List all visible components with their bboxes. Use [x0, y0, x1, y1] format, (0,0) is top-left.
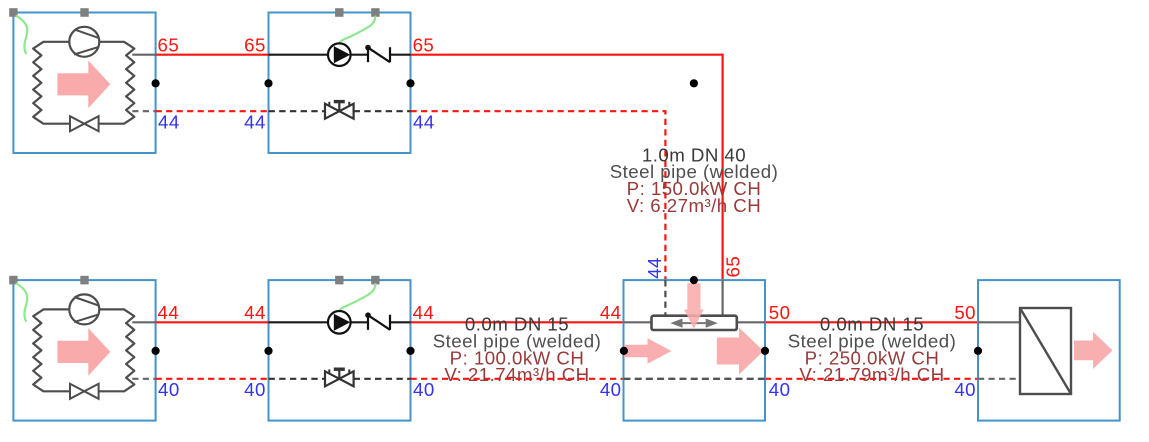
junction node row2 e: [761, 347, 769, 355]
pink arrow large right U5: [717, 328, 764, 375]
junction node row2 b: [264, 347, 272, 355]
supply pipe row2 seg2: [411, 321, 624, 323]
return stub inside U1: [132, 110, 155, 112]
svg-text:40: 40: [413, 379, 435, 400]
supply pipe 65 row1 seg1: [156, 54, 269, 56]
pink flow arrow U3: [57, 328, 110, 376]
component box U5 (mixing manifold): [624, 280, 766, 421]
expansion valve bowtie U1: [70, 116, 99, 131]
compressor circle U3: [69, 294, 99, 324]
svg-text:40: 40: [244, 379, 266, 400]
junction node manifold top: [690, 276, 698, 284]
selection handle U1 top-left: [9, 8, 17, 17]
check valve U4: [365, 312, 390, 329]
selection handle U2 b: [371, 8, 379, 17]
component box U3 (heat pump): [13, 280, 155, 421]
supply stubs inside U5: [624, 321, 766, 323]
return pipe row2 seg1: [156, 378, 269, 380]
shut-off valve U2: [325, 102, 354, 119]
return pipe row2 seg2: [411, 378, 624, 380]
selection handle U4 b: [371, 276, 379, 285]
svg-text:65: 65: [722, 256, 743, 278]
green connector squiggle U3: [17, 284, 28, 321]
junction node row1 a: [152, 79, 160, 87]
green connector squiggle U2: [340, 17, 376, 43]
component box U4 (pump group): [269, 280, 411, 421]
pump U4: [328, 311, 351, 334]
svg-text:50: 50: [954, 302, 976, 323]
green connector squiggle U1: [17, 16, 28, 53]
compressor circle U1: [69, 27, 99, 57]
supply pipe 65 row1 seg2 with drop: [411, 55, 723, 280]
return pipe 44 row1 seg2 with drop: [411, 111, 666, 280]
svg-text:65: 65: [244, 34, 266, 55]
svg-text:44: 44: [644, 257, 665, 279]
pink arrow small left U5: [624, 338, 672, 363]
component box U6 (consumer/heat exchanger): [978, 280, 1120, 421]
expansion valve bowtie U3: [70, 384, 99, 399]
supply pipe inside U4: [269, 321, 411, 323]
svg-text:V: 6.27m³/h CH: V: 6.27m³/h CH: [627, 195, 761, 216]
junction node row2 f: [974, 347, 982, 355]
return pipe 44 row1 seg1: [156, 110, 269, 112]
component box U1 (heat pump): [13, 13, 155, 154]
shut-off valve U4: [325, 369, 354, 386]
junction node row2 d: [620, 347, 628, 355]
pink flow arrow U1: [57, 61, 110, 109]
manifold double arrow: [672, 319, 717, 327]
selection handle U2 a: [335, 8, 343, 17]
svg-text:44: 44: [413, 302, 435, 323]
svg-text:40: 40: [769, 379, 791, 400]
component box U2 (pump group): [269, 13, 411, 154]
junction node row1 d: [690, 79, 698, 87]
svg-text:44: 44: [600, 302, 622, 323]
svg-text:44: 44: [158, 302, 180, 323]
heat exchanger symbol: [1020, 308, 1071, 394]
refrigerant coil loop U3: [33, 309, 134, 391]
svg-text:44: 44: [244, 111, 266, 132]
svg-text:V: 21.74m³/h CH: V: 21.74m³/h CH: [444, 364, 589, 385]
selection handle U4 a: [335, 276, 343, 285]
junction node row2 c: [406, 347, 414, 355]
vertical return drop inside U5: [664, 280, 666, 316]
return stub inside U6: [978, 378, 1020, 380]
selection handle U1 top-center: [80, 8, 88, 17]
junction node row1 c: [406, 79, 414, 87]
supply stub inside U1: [132, 54, 155, 56]
junction node row2 a: [152, 347, 160, 355]
svg-text:44: 44: [413, 112, 435, 133]
pink arrow U6: [1074, 332, 1113, 369]
check valve U2: [365, 45, 390, 62]
refrigerant coil loop U1: [33, 42, 134, 124]
return pipe inside U5: [624, 378, 766, 380]
supply stub inside U6: [978, 321, 1020, 323]
svg-text:65: 65: [158, 34, 180, 55]
pump U2: [328, 43, 351, 66]
return pipe inside U4: [269, 378, 411, 380]
svg-text:50: 50: [769, 302, 791, 323]
manifold header rect: [652, 316, 737, 330]
supply pipe row2 seg3: [765, 321, 978, 323]
return pipe row2 seg3: [765, 378, 978, 380]
junction node row1 b: [264, 79, 272, 87]
svg-text:40: 40: [954, 379, 976, 400]
svg-text:40: 40: [158, 379, 180, 400]
svg-text:65: 65: [413, 34, 435, 55]
selection handle U3 top-center: [80, 276, 88, 285]
supply pipe row2 seg1: [156, 321, 269, 323]
return pipe inside U2: [269, 110, 411, 112]
svg-text:44: 44: [244, 302, 266, 323]
selection handle U3 top-left: [9, 276, 17, 285]
return stub inside U3: [132, 378, 155, 380]
svg-text:44: 44: [158, 111, 180, 132]
pink down arrow into manifold: [684, 283, 703, 329]
green connector squiggle U4: [340, 284, 376, 310]
svg-text:40: 40: [600, 379, 622, 400]
svg-text:V: 21.79m³/h CH: V: 21.79m³/h CH: [799, 364, 944, 385]
supply pipe inside U2: [269, 54, 411, 56]
vertical supply drop inside U5: [721, 280, 723, 316]
supply stub inside U3: [132, 321, 155, 323]
